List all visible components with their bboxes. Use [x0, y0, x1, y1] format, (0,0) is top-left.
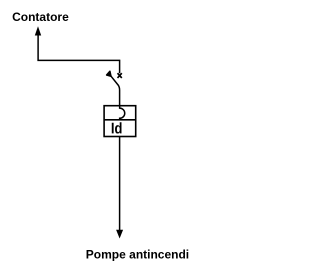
- svg-text:Contatore: Contatore: [12, 10, 69, 24]
- svg-text:Pompe antincendi: Pompe antincendi: [86, 247, 189, 261]
